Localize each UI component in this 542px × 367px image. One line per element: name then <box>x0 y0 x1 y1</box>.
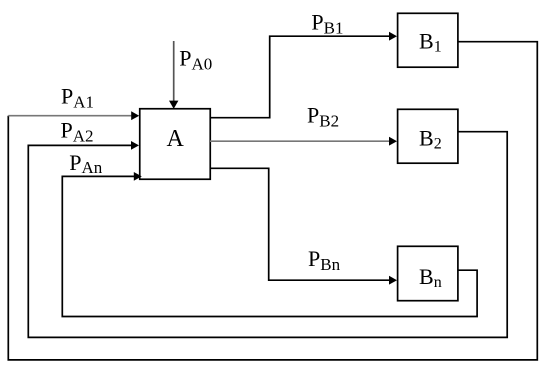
wire B2 feedback loop middle <box>28 132 507 338</box>
arrowhead PA0 <box>169 101 178 109</box>
block A <box>140 109 211 180</box>
wire A to B2 <box>210 140 389 142</box>
arrowhead PA2 into A <box>131 141 139 150</box>
svg-text:PB2: PB2 <box>307 102 339 130</box>
svg-text:A: A <box>167 126 185 152</box>
svg-text:PA0: PA0 <box>179 46 212 74</box>
svg-text:B2: B2 <box>419 126 442 153</box>
arrowhead into Bn <box>389 276 397 285</box>
wire PA0 vertical into top of A <box>173 41 175 101</box>
block B2 <box>398 109 458 163</box>
svg-text:B1: B1 <box>419 29 442 56</box>
wire A to B1 elbow <box>210 36 389 118</box>
block Bn <box>398 246 458 300</box>
arrowhead into B2 <box>389 137 397 146</box>
svg-text:PB1: PB1 <box>311 10 343 38</box>
wire PA1 horizontal into A <box>8 115 131 117</box>
svg-text:PBn: PBn <box>308 246 341 274</box>
arrowhead into B1 <box>389 32 397 41</box>
arrowhead PAn into A <box>134 172 142 181</box>
svg-text:PA2: PA2 <box>61 118 94 146</box>
svg-text:Bn: Bn <box>419 264 442 291</box>
svg-text:PAn: PAn <box>69 150 103 177</box>
wire Bn feedback loop inner <box>62 176 477 316</box>
block B1 <box>398 13 458 67</box>
svg-text:PA1: PA1 <box>61 83 94 111</box>
wire A to Bn elbow <box>210 168 389 280</box>
arrowhead PA1 into A <box>131 111 139 120</box>
